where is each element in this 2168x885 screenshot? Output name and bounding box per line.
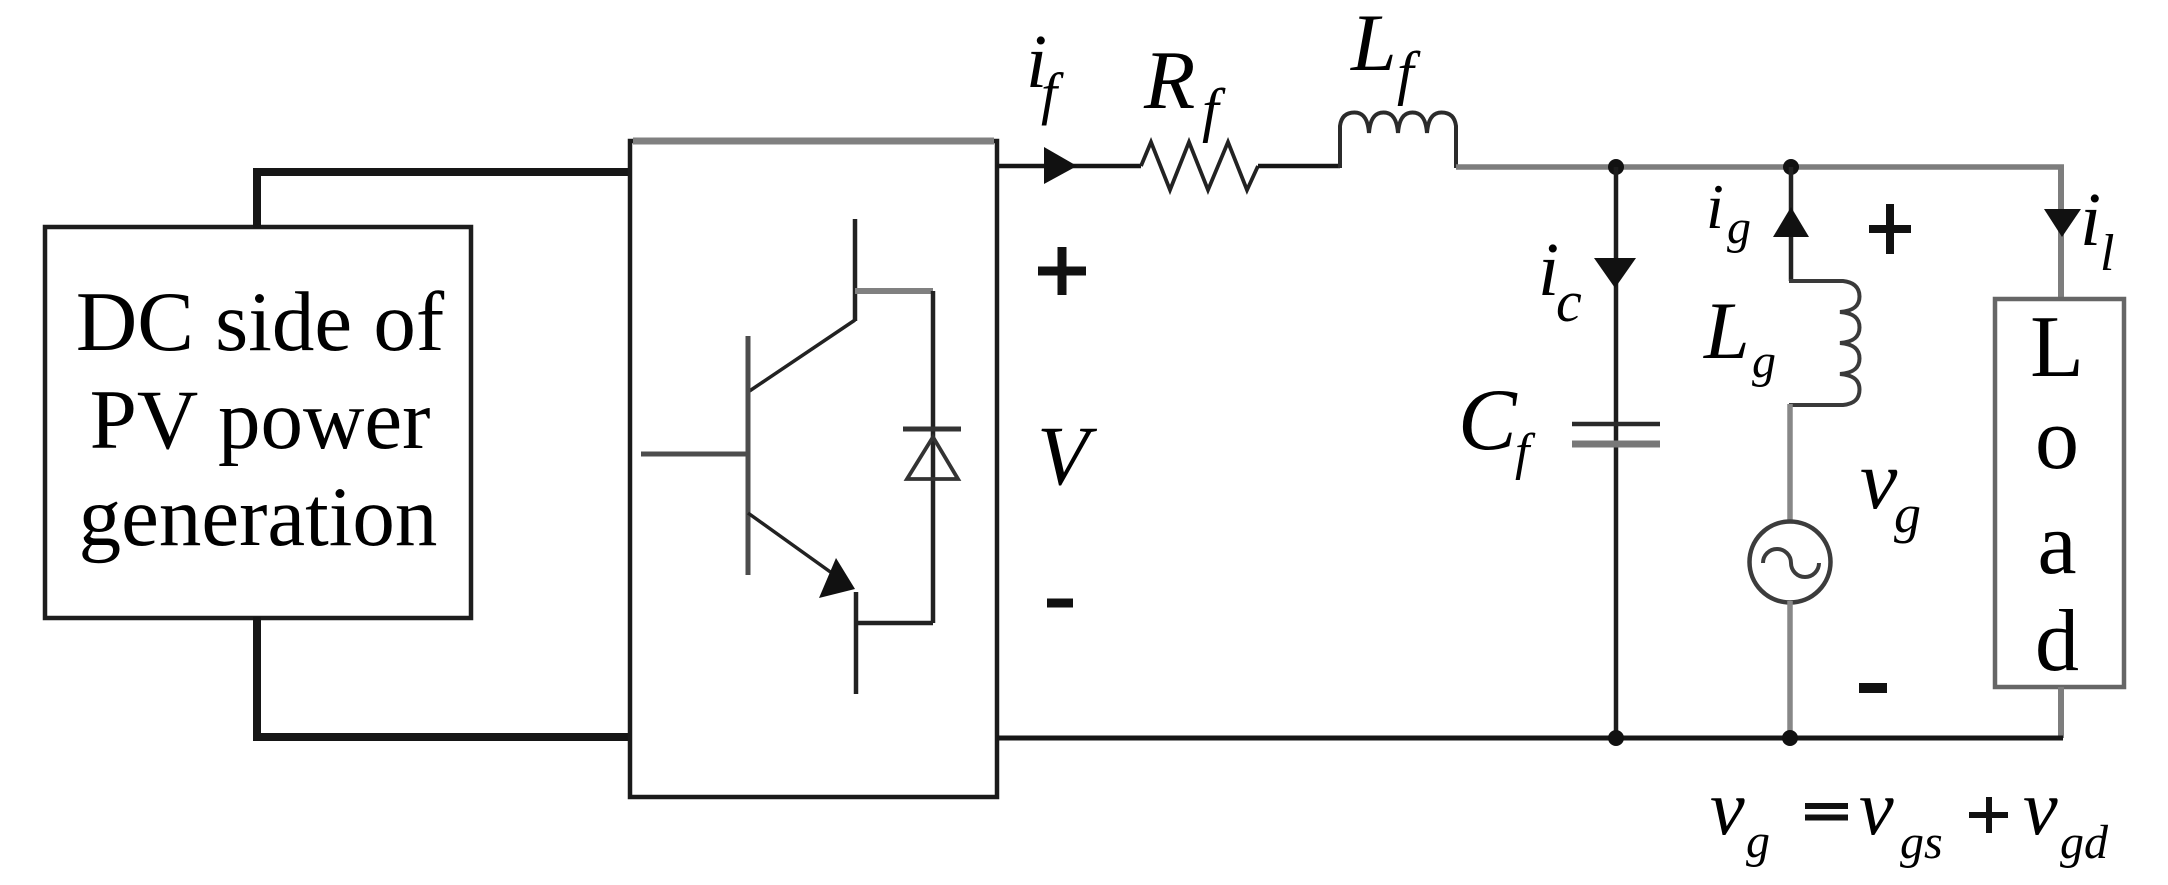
arrow current ic	[1594, 258, 1636, 288]
svg-text:L: L	[2030, 299, 2084, 396]
svg-text:g: g	[1894, 484, 1921, 544]
svg-text:R: R	[1143, 34, 1195, 127]
svg-text:a: a	[2037, 496, 2076, 593]
svg-text:v: v	[1859, 764, 1894, 851]
wire capacitor branch	[1614, 167, 1619, 738]
svg-text:i: i	[1706, 171, 1724, 242]
svg-text:C: C	[1458, 372, 1518, 469]
resistor Rf zigzag	[1141, 142, 1258, 190]
transistor Q1 body bar	[746, 336, 751, 575]
diode D1 triangle	[907, 437, 958, 479]
inductor Lg	[1789, 281, 1860, 405]
svg-text:l: l	[2100, 225, 2114, 282]
wire inverter output to resistor	[997, 164, 1141, 169]
arrow current if	[1044, 147, 1077, 184]
svg-text:v: v	[1860, 434, 1898, 527]
svg-text:v: v	[2023, 764, 2058, 851]
node C (cap bottom)	[1608, 730, 1624, 746]
inverter block U1	[630, 141, 997, 797]
load box	[1995, 299, 2124, 687]
node B (grid branch top)	[1783, 159, 1799, 175]
diode D1 vertical lead	[931, 291, 936, 623]
plus sign (grid)	[1869, 204, 1911, 254]
svg-text:DC side of: DC side of	[76, 275, 445, 369]
svg-text:gd: gd	[2060, 816, 2109, 869]
wire DC positive (top)	[257, 172, 631, 228]
wire collector to diode cathode (grey)	[855, 288, 933, 294]
svg-text:PV power: PV power	[90, 373, 431, 467]
svg-text:g: g	[1746, 815, 1770, 868]
wire DC negative (bottom)	[257, 617, 629, 737]
wire top rail (grey)	[1456, 164, 2064, 170]
AC source vg circle	[1750, 522, 1831, 603]
svg-text:i: i	[2080, 178, 2101, 262]
wire source to bottom rail (grey)	[1787, 601, 1793, 738]
svg-text:d: d	[2035, 593, 2079, 690]
wire load to bottom rail (grey)	[2058, 687, 2064, 738]
wire emitter to diode anode	[856, 621, 933, 626]
svg-text:g: g	[1727, 201, 1751, 254]
svg-text:gs: gs	[1900, 816, 1943, 869]
wire grid branch upper	[1789, 167, 1794, 281]
transistor Q1 emitter arrowhead	[819, 558, 855, 598]
inverter block top edge (grey)	[633, 138, 994, 145]
svg-text:v: v	[1710, 764, 1745, 851]
DC source box	[45, 227, 471, 618]
node D (source bottom)	[1782, 730, 1798, 746]
node A (filter cap top)	[1608, 159, 1624, 175]
svg-text:V: V	[1037, 409, 1098, 503]
svg-text:g: g	[1752, 335, 1776, 388]
AC source sine	[1763, 549, 1819, 577]
svg-text:generation: generation	[79, 470, 438, 564]
diode D1 cathode bar	[903, 427, 961, 432]
svg-text:L: L	[1703, 285, 1750, 376]
transistor Q1 emitter diagonal	[748, 513, 836, 576]
transistor Q1 gate lead	[641, 452, 748, 457]
bottom rail	[997, 736, 2063, 741]
svg-text:L: L	[1350, 0, 1397, 88]
svg-text:o: o	[2035, 391, 2079, 488]
transistor Q1 collector lead	[853, 219, 858, 321]
minus sign (grid)	[1859, 683, 1887, 693]
capacitor Cf top plate	[1572, 422, 1660, 427]
minus sign (inverter output)	[1047, 599, 1073, 608]
wire resistor to inductor	[1258, 164, 1340, 169]
arrow current ig	[1773, 207, 1809, 237]
inductor Lf	[1340, 113, 1456, 169]
transistor Q1 emitter lead	[854, 592, 859, 694]
wire coil to source (grey)	[1787, 404, 1793, 523]
wire load branch (grey)	[2058, 167, 2064, 299]
capacitor Cf bottom plate	[1572, 441, 1660, 448]
svg-text:c: c	[1556, 269, 1582, 334]
plus sign (inverter output)	[1038, 247, 1086, 295]
transistor Q1 collector diagonal	[748, 320, 855, 392]
arrow current il	[2044, 209, 2081, 237]
